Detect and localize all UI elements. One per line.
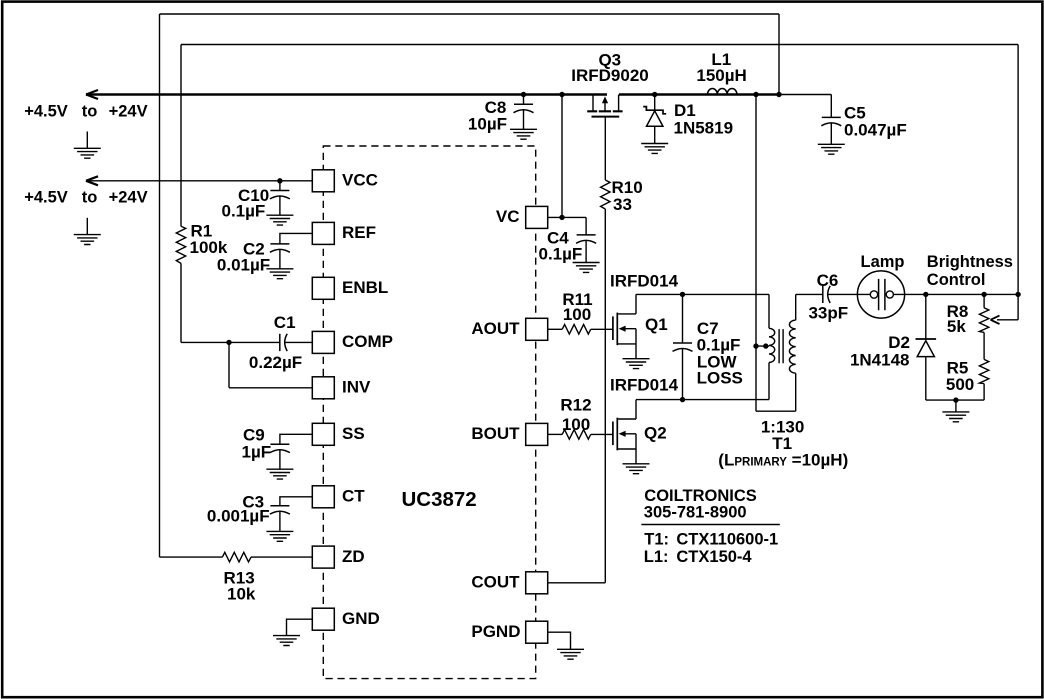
pin COMP	[312, 331, 393, 353]
svg-text:Brightness: Brightness	[927, 253, 1013, 271]
svg-text:INV: INV	[342, 378, 371, 397]
wire top feedback loop A	[160, 14, 780, 557]
svg-text:0.1µF: 0.1µF	[538, 245, 582, 264]
wire PGND to ground	[548, 632, 584, 659]
note COILTRONICS	[641, 487, 779, 566]
svg-text:Lamp: Lamp	[860, 253, 904, 271]
capacitor C9	[242, 426, 313, 480]
svg-text:VCC: VCC	[342, 171, 378, 190]
node rail junction loopA	[776, 92, 781, 97]
svg-text:5k: 5k	[947, 317, 966, 336]
IC UC3872 dashed outline	[323, 146, 535, 679]
svg-text:REF: REF	[342, 223, 376, 242]
svg-text:R12: R12	[560, 395, 591, 414]
node COMP junction	[226, 340, 231, 345]
potentiometer R8	[947, 294, 1019, 336]
ground input 1	[74, 132, 101, 159]
svg-text:ZD: ZD	[342, 547, 365, 566]
wire VC to C4	[548, 216, 586, 218]
input arrow 1	[86, 90, 98, 99]
wire R1 to COMP node	[181, 263, 229, 342]
transistor Q2	[610, 376, 679, 474]
svg-text:100: 100	[562, 415, 590, 434]
svg-text:0.01µF: 0.01µF	[217, 255, 270, 274]
wire supply to T1 center tap	[756, 95, 796, 412]
capacitor C2	[217, 233, 312, 278]
wire top loop B	[181, 45, 1018, 295]
transistor Q3	[571, 51, 648, 117]
svg-text:GND: GND	[342, 609, 380, 628]
diode D1	[641, 92, 733, 154]
svg-text:to: to	[82, 103, 98, 121]
svg-text:33pF: 33pF	[808, 304, 848, 323]
diode D2	[850, 294, 936, 400]
svg-text:500: 500	[946, 375, 974, 394]
svg-text:33: 33	[613, 195, 632, 214]
svg-text:COILTRONICS: COILTRONICS	[644, 487, 756, 505]
svg-text:10µF: 10µF	[468, 114, 507, 133]
svg-text:Q1: Q1	[645, 315, 668, 334]
wire Q2 drain to T1 primary bottom	[636, 399, 769, 401]
svg-text:1N4148: 1N4148	[850, 351, 910, 370]
svg-text:150µH: 150µH	[696, 66, 746, 85]
svg-text:C6: C6	[817, 271, 839, 290]
svg-text:D2: D2	[888, 333, 910, 352]
pin BOUT	[471, 423, 547, 445]
resistor R13	[160, 552, 313, 603]
svg-text:C1: C1	[274, 313, 296, 332]
svg-text:UC3872: UC3872	[402, 488, 477, 511]
svg-text:BOUT: BOUT	[471, 424, 520, 443]
resistor R1	[176, 222, 228, 264]
transistor Q1	[610, 272, 679, 369]
svg-text:Control: Control	[927, 271, 986, 289]
wire R10 to COUT	[548, 209, 606, 583]
capacitor C3	[207, 493, 312, 542]
pin INV	[312, 377, 371, 399]
capacitor C5	[818, 95, 907, 155]
svg-text:CTX150-4: CTX150-4	[676, 548, 752, 566]
pin AOUT	[471, 318, 547, 340]
svg-text:VC: VC	[496, 207, 520, 226]
wire rail to C5	[779, 94, 831, 96]
capacitor C8	[468, 92, 537, 139]
capacitor C4	[538, 217, 599, 272]
wire C6 to lamp	[828, 293, 857, 295]
wire R5 to D2 bottom	[926, 384, 984, 401]
svg-text:PGND: PGND	[471, 622, 520, 641]
pin PGND	[471, 621, 547, 643]
pin GND	[312, 608, 379, 630]
svg-text:IRFD014: IRFD014	[610, 376, 679, 395]
lamp	[857, 253, 904, 318]
pin COUT	[471, 572, 547, 594]
svg-text:+24V: +24V	[109, 103, 148, 121]
wire GND pin to ground	[273, 619, 312, 645]
svg-text:+24V: +24V	[109, 189, 148, 207]
svg-text:+4.5V: +4.5V	[24, 189, 68, 207]
svg-text:to: to	[82, 189, 98, 207]
node T1 tap junctions	[753, 343, 758, 348]
svg-text:IRFD9020: IRFD9020	[571, 66, 648, 85]
svg-text:COUT: COUT	[471, 573, 520, 592]
wire INV to COMP node	[229, 342, 312, 387]
resistor R10	[601, 178, 643, 214]
wire Q1 drain to T1 primary top	[636, 293, 769, 295]
svg-text:0.047µF: 0.047µF	[844, 120, 907, 139]
wire VC node to rail	[561, 95, 563, 218]
svg-text:0.1µF: 0.1µF	[222, 202, 266, 221]
svg-text:0.22µF: 0.22µF	[249, 353, 302, 372]
inductor L1	[696, 50, 746, 95]
wire lamp to brightness control	[905, 293, 1019, 295]
ground input 2	[74, 218, 101, 245]
node main supply rail	[86, 93, 779, 95]
svg-text:100: 100	[563, 305, 591, 324]
capacitor C10	[222, 178, 294, 225]
svg-text:305-781-8900: 305-781-8900	[644, 504, 747, 522]
wire COMP node to C1	[229, 341, 280, 343]
node rail junction T1	[753, 92, 758, 97]
input arrow 2	[86, 176, 98, 185]
capacitor C6	[808, 271, 848, 323]
wire T1 secondary to C6	[796, 293, 823, 295]
resistor R11	[548, 290, 613, 334]
capacitor C1	[249, 313, 312, 372]
capacitor C7	[673, 292, 743, 403]
svg-text:COMP: COMP	[342, 332, 393, 351]
svg-text:CT: CT	[342, 487, 365, 506]
svg-text:IRFD014: IRFD014	[610, 272, 679, 291]
svg-text:1N5819: 1N5819	[674, 118, 734, 137]
svg-text:CTX110600-1: CTX110600-1	[676, 530, 778, 548]
resistor R5	[946, 359, 989, 394]
wire VCC input	[86, 180, 312, 182]
svg-text:+4.5V: +4.5V	[24, 103, 68, 121]
svg-text:10k: 10k	[227, 585, 256, 604]
svg-text:AOUT: AOUT	[471, 319, 520, 338]
svg-text:Q2: Q2	[644, 424, 667, 443]
pin SS	[312, 423, 364, 445]
pin REF	[312, 222, 376, 244]
svg-text:LOSS: LOSS	[697, 369, 743, 388]
pin ENBL	[312, 277, 388, 299]
pin VCC	[312, 170, 378, 192]
ground brightness	[942, 400, 969, 422]
pin VC	[496, 206, 548, 228]
node VC junction	[559, 215, 564, 220]
wire Q3 gate to R10	[604, 117, 606, 180]
svg-text:T1:: T1:	[644, 530, 669, 548]
svg-text:0.001µF: 0.001µF	[207, 507, 270, 526]
node bottom ground junction	[953, 397, 958, 402]
svg-text:L1:: L1:	[644, 548, 669, 566]
pin CT	[312, 486, 365, 508]
svg-text:1µF: 1µF	[242, 443, 272, 462]
pin ZD	[312, 546, 364, 568]
svg-text:ENBL: ENBL	[342, 278, 388, 297]
svg-text:D1: D1	[674, 101, 696, 120]
wire R8 to R5	[983, 332, 985, 359]
transformer T1	[718, 294, 848, 469]
resistor R12	[548, 395, 613, 439]
svg-text:SS: SS	[342, 424, 365, 443]
